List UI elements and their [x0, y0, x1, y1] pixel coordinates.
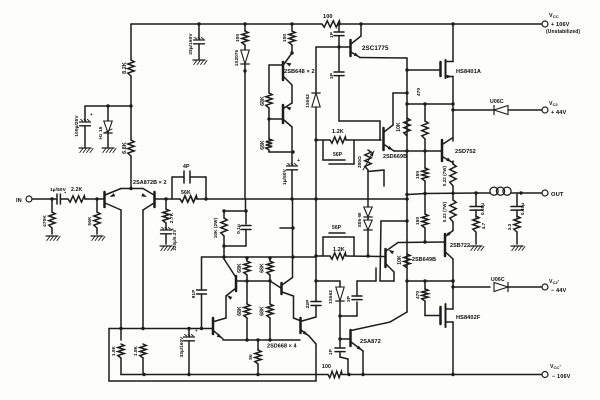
svg-text:22P: 22P: [305, 299, 311, 309]
svg-text:1.2K: 1.2K: [332, 129, 344, 135]
svg-text:− 44V: − 44V: [551, 288, 566, 294]
svg-text:2.7K: 2.7K: [169, 212, 175, 223]
svg-text:0.68µ: 0.68µ: [480, 203, 485, 215]
svg-text:2SB648 × 2: 2SB648 × 2: [284, 69, 315, 75]
svg-text:VCC: VCC: [549, 13, 559, 19]
svg-text:1P: 1P: [329, 31, 335, 38]
svg-text:VC2: VC2: [549, 101, 559, 107]
svg-text:2SD669B: 2SD669B: [383, 154, 407, 160]
svg-text:100µ/25V: 100µ/25V: [74, 115, 80, 137]
svg-text:4.7: 4.7: [481, 222, 486, 229]
svg-text:2SA872: 2SA872: [360, 339, 381, 345]
svg-text:3.3: 3.3: [507, 223, 512, 230]
svg-text:Hz 15: Hz 15: [98, 126, 104, 139]
svg-text:56K: 56K: [181, 190, 191, 196]
svg-text:6.8K: 6.8K: [122, 142, 128, 154]
svg-text:+ 44V: + 44V: [551, 110, 566, 116]
svg-text:56P: 56P: [332, 225, 342, 231]
svg-text:0.22 (7W): 0.22 (7W): [442, 201, 447, 222]
svg-text:+: +: [90, 112, 93, 117]
svg-text:+: +: [297, 158, 300, 164]
svg-text:2SD752: 2SD752: [455, 149, 476, 155]
svg-text:470: 470: [415, 291, 421, 300]
svg-text:68K: 68K: [260, 96, 266, 106]
svg-text:U06C: U06C: [490, 99, 504, 105]
svg-text:100: 100: [282, 34, 288, 43]
svg-text:(Unstabilized): (Unstabilized): [546, 29, 580, 35]
svg-text:56: 56: [248, 354, 254, 360]
svg-text:91P: 91P: [191, 289, 197, 299]
svg-text:HS8402F: HS8402F: [456, 315, 481, 321]
svg-text:56P: 56P: [333, 152, 343, 158]
svg-text:8.2K: 8.2K: [122, 62, 128, 74]
svg-text:0.22 (7W): 0.22 (7W): [442, 165, 447, 186]
svg-text:10K: 10K: [396, 122, 402, 132]
svg-text:3P: 3P: [346, 295, 352, 302]
svg-text:100: 100: [235, 34, 241, 43]
svg-text:68K: 68K: [260, 140, 266, 150]
svg-text:150: 150: [415, 171, 421, 180]
svg-text:220µ/6.3V: 220µ/6.3V: [172, 229, 177, 250]
svg-text:1S562: 1S562: [305, 94, 310, 108]
svg-text:1.8K: 1.8K: [133, 345, 138, 356]
svg-text:2SA872B × 2: 2SA872B × 2: [133, 180, 167, 186]
svg-text:10K: 10K: [397, 255, 403, 265]
svg-text:3P: 3P: [329, 72, 335, 79]
svg-text:2SC1775: 2SC1775: [362, 45, 389, 52]
svg-text:470K: 470K: [42, 215, 48, 227]
svg-text:150: 150: [415, 217, 421, 226]
svg-text:1µ/50V: 1µ/50V: [282, 168, 288, 185]
svg-text:2SD668 × 4: 2SD668 × 4: [267, 344, 297, 350]
svg-text:33µ/160V: 33µ/160V: [179, 336, 184, 357]
svg-text:68K: 68K: [260, 306, 266, 316]
svg-text:− 106V: − 106V: [552, 374, 571, 380]
svg-text:HS8401A: HS8401A: [456, 69, 481, 75]
svg-text:68K: 68K: [237, 263, 243, 273]
svg-text:100: 100: [322, 364, 331, 370]
svg-text:1P: 1P: [328, 348, 334, 355]
svg-text:4P: 4P: [183, 164, 190, 170]
svg-text:100: 100: [323, 14, 333, 20]
svg-text:IN: IN: [16, 198, 22, 204]
svg-text:U06C: U06C: [491, 277, 505, 283]
svg-text:0.47µ: 0.47µ: [520, 203, 525, 215]
svg-text:56K: 56K: [87, 216, 93, 226]
svg-text:1S2076: 1S2076: [234, 49, 239, 66]
svg-text:2SB649B: 2SB649B: [412, 257, 436, 263]
svg-text:33µ/160V: 33µ/160V: [188, 33, 194, 55]
svg-text:VCC': VCC': [550, 364, 561, 371]
svg-text:1.2K: 1.2K: [333, 247, 345, 253]
svg-text:200Ω: 200Ω: [357, 156, 362, 168]
svg-text:1µ/50V: 1µ/50V: [50, 187, 67, 193]
svg-text:2SB722: 2SB722: [450, 243, 470, 249]
svg-text:68K: 68K: [260, 263, 266, 273]
svg-text:68K: 68K: [237, 306, 243, 316]
svg-text:2.2K: 2.2K: [71, 187, 83, 193]
svg-text:VC2': VC2': [549, 279, 559, 286]
svg-text:470: 470: [416, 88, 422, 97]
svg-text:S05-W: S05-W: [357, 212, 362, 227]
svg-text:10K (2W): 10K (2W): [213, 217, 218, 238]
svg-text:+ 106V: + 106V: [551, 22, 570, 28]
svg-text:0.1µ: 0.1µ: [236, 224, 242, 234]
svg-text:OUT: OUT: [551, 192, 564, 198]
svg-text:1S562: 1S562: [328, 290, 333, 304]
svg-text:1.8K: 1.8K: [111, 345, 116, 356]
